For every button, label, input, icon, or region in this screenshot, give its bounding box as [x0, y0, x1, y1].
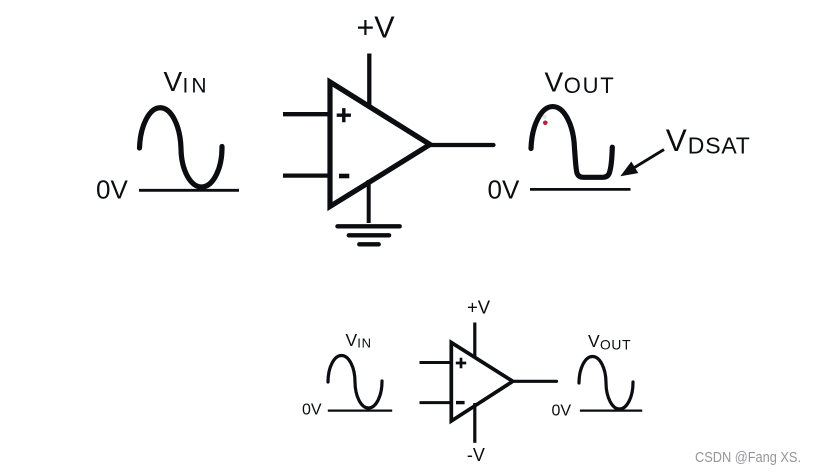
pin + (non-inverting input) of U1	[337, 108, 351, 122]
wire -V supply of U2	[473, 403, 476, 443]
svg-text:V: V	[588, 331, 600, 351]
node VIN label (top input waveform)	[164, 66, 210, 98]
svg-text:CSDN @Fang XS.: CSDN @Fang XS.	[695, 449, 801, 466]
wire non-inverting input of U2	[420, 361, 452, 364]
svg-text:DSAT: DSAT	[688, 133, 751, 159]
svg-text:V: V	[666, 122, 687, 158]
svg-text:0V: 0V	[302, 402, 322, 419]
svg-text:IN: IN	[357, 335, 372, 350]
svg-text:V: V	[164, 66, 183, 97]
wire inverting input of U2	[420, 401, 452, 404]
svg-text:+V: +V	[467, 296, 491, 317]
svg-text:0V: 0V	[552, 403, 572, 420]
node VOUT label (top output waveform)	[545, 67, 616, 99]
wire +V supply to op-amp U1	[367, 54, 371, 111]
input sine waveform VIN (bottom figure)	[328, 356, 382, 408]
svg-text:+V: +V	[357, 11, 396, 45]
pin + (non-inverting input) of U2	[456, 358, 466, 368]
op-amp U2 (triangle)	[451, 343, 513, 422]
op-amp U1 (triangle)	[330, 82, 430, 207]
arrow pointing to VDSAT clipping level	[620, 150, 664, 177]
wire output of U1	[430, 143, 494, 147]
svg-text:V: V	[346, 330, 358, 350]
wire +V supply to op-amp U2	[473, 323, 476, 363]
wire 0V baseline (top output)	[530, 188, 631, 191]
pin - (inverting input) of U2	[456, 401, 465, 404]
wire output of U2	[513, 380, 557, 383]
svg-text:0V: 0V	[96, 174, 128, 204]
wire 0V baseline (bottom output)	[580, 409, 642, 411]
svg-text:V: V	[545, 67, 564, 98]
svg-text:-V: -V	[467, 445, 485, 465]
svg-text:0V: 0V	[488, 174, 520, 204]
ground symbol	[338, 226, 400, 244]
node VOUT label (bottom figure)	[588, 331, 631, 352]
wire 0V baseline (bottom input)	[328, 409, 392, 411]
annotation dot (teal) near VOUT peak	[543, 115, 547, 119]
pin - (inverting input) of U1	[339, 174, 349, 179]
svg-text:OUT: OUT	[600, 337, 631, 352]
wire ground stem of U1	[367, 180, 371, 223]
wire non-inverting input of U1	[283, 112, 330, 116]
wire 0V baseline (top input)	[139, 189, 239, 192]
input sine waveform VIN (top)	[140, 108, 223, 187]
output waveform VOUT clipped at VDSAT (top)	[531, 107, 612, 178]
wire inverting input of U1	[283, 173, 330, 177]
output sine waveform VOUT (bottom figure)	[579, 357, 633, 410]
svg-text:OUT: OUT	[564, 73, 616, 98]
node VIN label (bottom figure)	[346, 330, 372, 350]
node VDSAT label	[666, 122, 751, 159]
svg-text:IN: IN	[183, 75, 210, 98]
annotation dot (red) near VOUT peak	[543, 121, 548, 126]
